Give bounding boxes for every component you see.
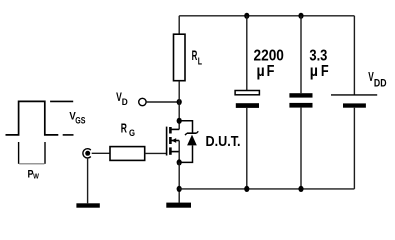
ground at input [76,203,99,207]
terminal V_D [139,98,146,105]
bottom rail [179,188,354,190]
svg-text:W: W [33,171,39,180]
svg-text:3.3: 3.3 [309,48,327,65]
node bottom rail C1 [244,186,249,192]
wire source to bottom rail and ground [178,162,180,202]
reference dash bottom [63,134,74,136]
capacitor C2 3.3uF plate bottom [289,103,312,108]
node V_D junction [177,99,182,105]
transistor D.U.T. (MOSFET) [167,127,180,163]
svg-text:D: D [122,97,128,108]
svg-text:R: R [192,48,198,63]
wire R_G to gate [145,152,167,154]
top rail [179,15,354,17]
node top rail C1 [244,13,249,19]
label R_L [192,48,203,67]
wire C1 to bottom rail [246,108,248,189]
wire R_L to drain [178,81,180,130]
pulse waveform V_GS [6,101,59,134]
svg-text:µ: µ [310,63,318,80]
node bottom rail C2 [298,186,303,192]
node top rail C2 [298,13,303,19]
wire battery to bottom rail [353,108,355,189]
svg-text:2200: 2200 [254,48,285,65]
wire top rail to C1 [246,16,248,91]
wire top rail to C2 [300,16,302,93]
node drain [177,118,182,124]
wire terminal to R_G [92,152,110,154]
reference dash top [50,100,73,102]
resistor R_L [174,34,186,80]
wire terminal to ground [87,158,89,204]
label V_GS [69,111,85,126]
capacitor C1 2200uF plate top [235,91,259,95]
body diode (zener) of D.U.T. [179,121,198,163]
svg-text:F: F [267,63,275,80]
battery V_DD plate positive [331,94,377,96]
wire C2 to bottom rail [300,108,302,189]
svg-text:L: L [198,56,202,67]
label R_G [121,122,135,138]
resistor R_G [110,147,145,161]
node source rail junction [177,186,182,192]
label V_DD [368,69,386,89]
capacitor C2 3.3uF plate top [289,93,312,97]
input connector terminal [83,149,91,158]
wire top rail to R_L [178,16,180,34]
pulse width marker right [44,142,46,164]
label uF C2 [310,63,329,80]
battery V_DD plate negative [343,103,366,107]
svg-text:G: G [129,128,135,138]
pulse width baseline [19,163,44,165]
wire top rail to battery [353,16,355,95]
svg-text:DD: DD [374,77,387,89]
label V_D [116,91,128,108]
svg-text:µ: µ [257,63,265,80]
ground at source [166,203,191,208]
svg-text:D.U.T.: D.U.T. [206,134,241,150]
label uF C1 [257,63,275,80]
wire V_D to drain [146,101,179,103]
pulse width marker left [18,142,20,164]
svg-text:GS: GS [75,115,85,125]
node source [177,159,182,165]
svg-text:F: F [321,63,329,80]
label P_W [28,169,40,181]
capacitor C1 2200uF plate bottom [236,103,259,108]
svg-text:R: R [121,122,127,136]
